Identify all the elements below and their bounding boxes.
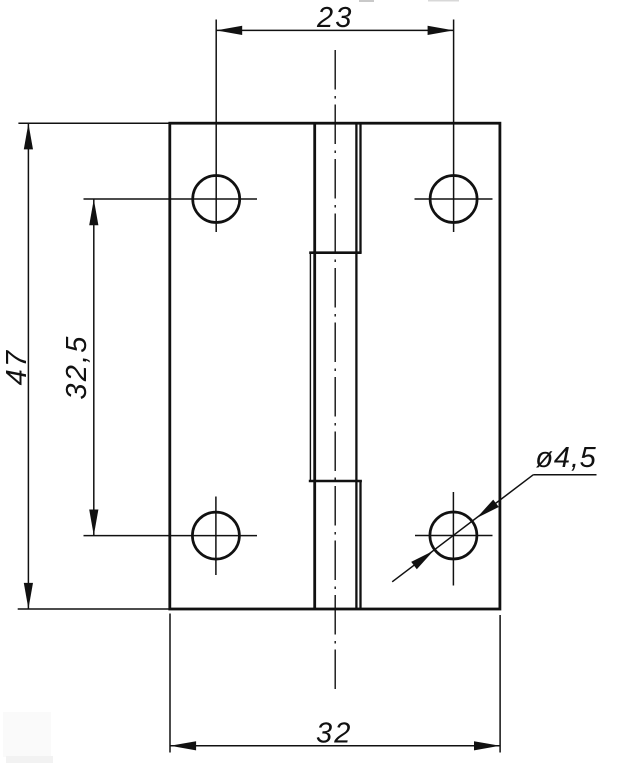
hinge plate outline [170,123,500,609]
dimension line 47 [27,123,29,609]
leader line horizontal under text [533,474,596,476]
centerline vertical hole BL [215,497,217,576]
centerline horizontal hole BL / extension for 32,5 [84,535,258,537]
faint scan shading bottom-left 1 [3,712,51,757]
dimension line 32,5 [93,199,95,536]
extension line 47 top [18,122,169,124]
vertical axis centerline (dash-dot) [334,50,336,689]
centerline horizontal hole TL / extension for 32,5 [84,198,258,200]
dimension line 23 [216,29,453,31]
extension line 32 right [499,615,501,753]
extension line 47 bottom [18,608,170,610]
svg-text:32,5: 32,5 [61,334,93,399]
faint scan shading bottom-left 2 [6,756,53,763]
centerline horizontal hole TR [415,198,493,200]
hole top-left [193,176,240,223]
arrowhead 47 bottom [24,583,33,609]
arrowhead leader upper (points to hole) [477,500,499,518]
knuckle step upper [309,251,361,254]
knuckle step lower [309,480,362,483]
arrowhead 32,5 top [89,199,98,225]
centerline vertical hole TL / extension for 23 [215,20,217,233]
centerline horizontal hole BR [415,535,493,537]
knuckle edge line full height [313,123,316,609]
svg-text:47: 47 [1,349,33,386]
svg-text:ø4,5: ø4,5 [535,442,596,474]
leader line diagonal for hole diameter [392,475,533,582]
arrowhead 23 left [216,26,242,35]
knuckle outer seam bottom segment [359,481,361,609]
arrowhead 32 left [170,741,196,750]
arrowhead 47 top [24,123,33,149]
hole bottom-left [192,512,239,559]
dimension line 32 [170,745,500,747]
centerline vertical hole BR [452,492,454,586]
knuckle inner thin line middle segment [309,253,311,481]
arrowhead 32,5 bottom [89,510,98,536]
faint scan remnant top 1 [359,0,374,2]
svg-text:32: 32 [316,718,353,750]
centerline vertical hole TR / extension for 23 [453,20,455,233]
svg-text:23: 23 [316,2,354,34]
extension line 32 left [169,614,171,753]
knuckle seam line full height [355,123,357,609]
arrowhead leader lower (points to hole) [411,551,433,570]
hole bottom-right [430,512,477,559]
arrowhead 23 right [428,26,454,35]
faint scan remnant top 2 [428,0,459,2]
hole top-right [430,176,477,223]
knuckle outer seam top segment [359,123,361,253]
arrowhead 32 right [474,741,500,750]
